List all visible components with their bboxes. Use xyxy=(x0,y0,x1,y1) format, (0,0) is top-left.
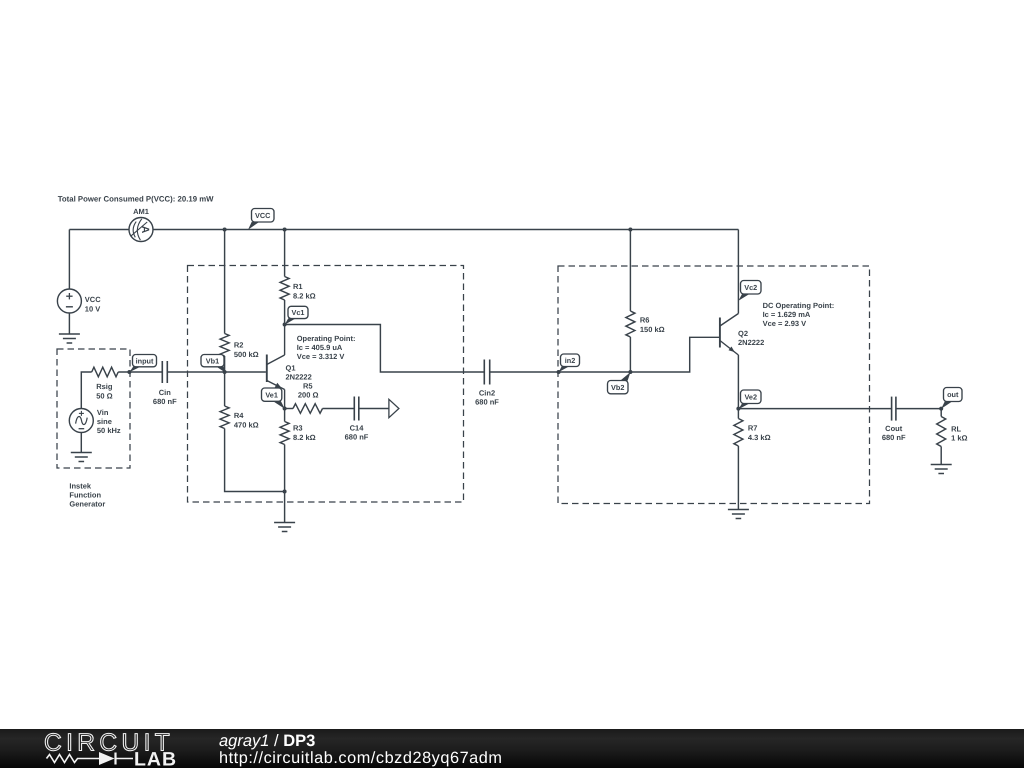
svg-text:Vc1: Vc1 xyxy=(292,308,305,317)
net flag in2 xyxy=(559,354,580,372)
capacitor C14 680nF xyxy=(345,397,369,442)
voltage source VCC 10V xyxy=(57,289,101,314)
svg-text:2N2222: 2N2222 xyxy=(738,338,764,347)
transistor Q2 2N2222 xyxy=(720,314,764,356)
resistor R4 470k xyxy=(220,406,259,429)
wire Q2 collector to rail xyxy=(737,230,739,314)
svg-text:470 kΩ: 470 kΩ xyxy=(234,420,259,429)
net flag Ve1 xyxy=(262,388,285,409)
svg-text:VCC: VCC xyxy=(85,295,101,304)
net flag Vc2 xyxy=(738,281,761,301)
ammeter AM1 xyxy=(129,207,153,242)
wire R4 to bottom rail xyxy=(225,429,285,492)
svg-text:8.2 kΩ: 8.2 kΩ xyxy=(293,291,316,300)
svg-text:R3: R3 xyxy=(293,424,303,433)
wire Cin to Vb1 node xyxy=(167,371,224,373)
svg-text:8.2 kΩ: 8.2 kΩ xyxy=(293,433,316,442)
node Vc1 xyxy=(283,323,287,327)
wire out node to RL xyxy=(940,409,942,417)
svg-text:A: A xyxy=(139,226,151,234)
svg-text:Vc2: Vc2 xyxy=(744,283,757,292)
svg-text:R1: R1 xyxy=(293,282,303,291)
svg-text:LAB: LAB xyxy=(134,749,177,769)
net flag input xyxy=(129,355,156,373)
svg-text:Q1: Q1 xyxy=(286,364,296,373)
svg-text:680 nF: 680 nF xyxy=(153,397,177,406)
svg-text:Total Power Consumed P(VCC): 2: Total Power Consumed P(VCC): 20.19 mW xyxy=(58,195,214,204)
resistor R6 150k xyxy=(626,311,665,337)
wire Cin2 to Vb2 node xyxy=(490,371,631,373)
transistor Q1 2N2222 xyxy=(267,325,312,409)
net flag VCC xyxy=(248,209,274,230)
svg-text:680 nF: 680 nF xyxy=(345,433,369,442)
node Ve1 xyxy=(283,407,287,411)
node Vb1 xyxy=(223,370,227,374)
svg-text:Vb1: Vb1 xyxy=(206,356,219,365)
node out xyxy=(939,407,943,411)
CircuitLab logo resistor and diode glyph xyxy=(47,752,134,765)
svg-text:http://circuitlab.com/cbzd28yq: http://circuitlab.com/cbzd28yq67adm xyxy=(219,749,503,767)
svg-text:Ic = 405.9 uA: Ic = 405.9 uA xyxy=(297,343,343,352)
wire R1 to Vc1 node xyxy=(284,300,286,325)
label Instek Function Generator xyxy=(69,482,105,509)
net flag Vc1 xyxy=(285,306,308,325)
ground under first stage xyxy=(274,492,295,532)
svg-text:Cout: Cout xyxy=(885,424,903,433)
svg-text:DC Operating Point:: DC Operating Point: xyxy=(763,301,835,310)
second stage dashed box xyxy=(558,266,870,504)
svg-text:R4: R4 xyxy=(234,411,244,420)
label total power consumed xyxy=(58,195,214,204)
resistor R3 8.2k xyxy=(280,422,316,445)
node rail-R1 junction xyxy=(283,228,287,232)
svg-text:sine: sine xyxy=(97,417,112,426)
wire rail to R2 xyxy=(224,230,226,334)
wire VCC source to rail xyxy=(68,230,70,290)
wire Ve1 node to R5 xyxy=(285,408,293,410)
svg-text:Ve1: Ve1 xyxy=(265,390,278,399)
wire Rsig to Cin xyxy=(118,371,162,373)
net flag Vb2 xyxy=(608,372,631,394)
capacitor Cout 680nF xyxy=(882,397,906,442)
svg-text:Vce = 3.312 V: Vce = 3.312 V xyxy=(297,352,345,361)
output port triangle xyxy=(389,399,399,417)
svg-text:10 V: 10 V xyxy=(85,305,100,314)
svg-text:Ve2: Ve2 xyxy=(744,392,757,401)
wire base node to R4 xyxy=(224,372,226,406)
svg-text:R5: R5 xyxy=(303,381,313,390)
svg-text:680 nF: 680 nF xyxy=(882,433,906,442)
svg-text:Vce = 2.93 V: Vce = 2.93 V xyxy=(763,319,807,328)
capacitor Cin 680nF xyxy=(153,361,177,406)
svg-text:680 nF: 680 nF xyxy=(475,397,499,406)
svg-text:R7: R7 xyxy=(748,424,758,433)
svg-text:200 Ω: 200 Ω xyxy=(298,390,319,399)
svg-text:150 kΩ: 150 kΩ xyxy=(640,325,665,334)
resistor RL 1k xyxy=(937,417,968,447)
node Vb2 xyxy=(628,370,632,374)
ground under RL xyxy=(931,447,952,474)
wire Vin to Rsig xyxy=(81,372,91,409)
svg-text:500 kΩ: 500 kΩ xyxy=(234,350,259,359)
svg-text:C14: C14 xyxy=(350,424,365,433)
wire Q2 emitter to Ve2 node xyxy=(737,355,739,409)
svg-text:1 kΩ: 1 kΩ xyxy=(951,434,967,443)
resistor R1 8.2k xyxy=(280,277,316,301)
svg-text:Instek: Instek xyxy=(69,482,92,491)
svg-text:VCC: VCC xyxy=(255,211,271,220)
footer black bar xyxy=(0,729,1024,768)
resistor R2 500k xyxy=(220,334,259,359)
svg-text:RL: RL xyxy=(951,424,961,433)
voltage source Vin sine 50kHz xyxy=(69,408,121,435)
svg-text:Function: Function xyxy=(69,491,101,500)
wire Ve1 node to R3 xyxy=(284,409,286,422)
node input xyxy=(127,370,131,374)
wire Vc1 to Cin2 xyxy=(285,325,485,373)
Instek function generator dashed box xyxy=(57,349,130,468)
svg-text:in2: in2 xyxy=(565,356,576,365)
svg-text:2N2222: 2N2222 xyxy=(286,373,312,382)
ground under R7 xyxy=(728,446,749,519)
svg-text:Q2: Q2 xyxy=(738,329,748,338)
wire rail to R6 xyxy=(629,230,631,312)
label operating point stage1 xyxy=(297,334,356,361)
first stage dashed box xyxy=(188,266,464,503)
wire Vb1 node to Q1 base xyxy=(225,371,266,373)
node bottom rail junction xyxy=(283,490,287,494)
svg-text:Operating Point:: Operating Point: xyxy=(297,334,356,343)
resistor Rsig 50 xyxy=(92,367,119,400)
capacitor Cin2 680nF xyxy=(475,360,499,407)
wire Cout to out node xyxy=(896,408,941,410)
svg-text:input: input xyxy=(136,356,154,365)
resistor R7 4.3k xyxy=(734,419,771,446)
node rail-R2 junction xyxy=(223,228,227,232)
svg-text:agray1 / DP3: agray1 / DP3 xyxy=(219,732,315,750)
wire R6 to Vb2 node xyxy=(629,337,631,372)
wire Ve2 node to R7 xyxy=(737,409,739,419)
net flag Vb1 xyxy=(201,355,225,373)
wire Ve2 node to Cout xyxy=(738,408,891,410)
svg-text:50 kHz: 50 kHz xyxy=(97,426,121,435)
wire VCC top rail xyxy=(69,229,738,231)
wire rail to R1 xyxy=(284,230,286,277)
svg-text:Cin: Cin xyxy=(159,388,172,397)
wire C14 to output port xyxy=(359,408,389,410)
wire R3 to bottom rail xyxy=(284,445,286,492)
node Ve2 xyxy=(736,407,740,411)
net flag out xyxy=(941,388,962,409)
svg-text:Generator: Generator xyxy=(69,500,105,509)
svg-text:Cin2: Cin2 xyxy=(479,389,495,398)
ground under Vin xyxy=(71,433,92,462)
svg-text:Vin: Vin xyxy=(97,408,109,417)
svg-text:out: out xyxy=(947,390,959,399)
net flag Ve2 xyxy=(738,390,761,409)
svg-text:AM1: AM1 xyxy=(133,207,149,216)
node rail-R6 junction xyxy=(628,228,632,232)
svg-text:Vb2: Vb2 xyxy=(611,383,624,392)
svg-text:R6: R6 xyxy=(640,316,650,325)
ground under VCC source xyxy=(59,313,80,343)
node in2 xyxy=(557,370,561,374)
svg-text:Ic = 1.629 mA: Ic = 1.629 mA xyxy=(763,310,811,319)
resistor R5 200 xyxy=(293,381,323,413)
wire Vb2 node to Q2 base xyxy=(630,337,719,372)
svg-text:50 Ω: 50 Ω xyxy=(96,392,112,401)
svg-text:R2: R2 xyxy=(234,341,244,350)
svg-text:Rsig: Rsig xyxy=(96,382,113,391)
wire R5 to C14 xyxy=(323,408,355,410)
label operating point stage2 xyxy=(763,301,835,328)
svg-text:4.3 kΩ: 4.3 kΩ xyxy=(748,433,771,442)
wire R2 to base node xyxy=(224,356,226,372)
